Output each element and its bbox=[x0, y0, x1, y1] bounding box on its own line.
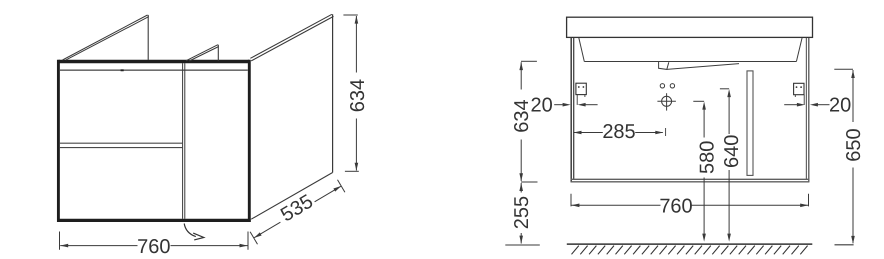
svg-text:634: 634 bbox=[511, 99, 533, 132]
svg-text:650: 650 bbox=[843, 128, 865, 161]
svg-text:760: 760 bbox=[659, 195, 692, 217]
svg-text:580: 580 bbox=[697, 141, 719, 174]
svg-text:255: 255 bbox=[511, 196, 533, 229]
svg-text:634: 634 bbox=[347, 79, 369, 112]
svg-text:20: 20 bbox=[530, 94, 552, 116]
svg-text:640: 640 bbox=[721, 135, 743, 168]
svg-text:20: 20 bbox=[829, 95, 851, 117]
svg-text:285: 285 bbox=[602, 121, 635, 143]
svg-text:760: 760 bbox=[137, 236, 170, 258]
